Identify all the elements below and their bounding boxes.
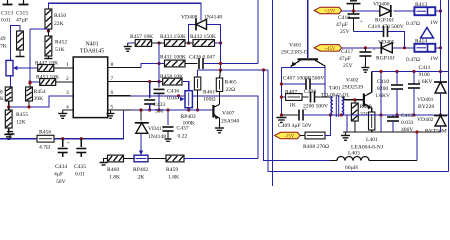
svg-text:1K: 1K: [289, 103, 296, 109]
svg-text:39K: 39K: [34, 96, 44, 102]
svg-text:RP402: RP402: [133, 167, 148, 173]
wire R432 right to vertical: [215, 42, 221, 44]
pin 7: [111, 76, 114, 82]
wire bundle line B to L403: [264, 70, 331, 161]
resistor R455 12K: [5, 110, 28, 128]
node R454 top: [28, 81, 31, 84]
wire R461-R465 top rail: [198, 70, 268, 77]
wire R456 line: [0, 110, 124, 139]
wire R447 to pin 1: [54, 67, 73, 69]
ground above C418: [347, 1, 361, 11]
capacitor C313 (top plate, off-page): [1, 0, 13, 24]
svg-text:2: 2: [66, 76, 69, 82]
svg-text:+: +: [304, 107, 307, 113]
wire bundle line D: [272, 0, 274, 186]
svg-text:V402: V402: [346, 78, 359, 84]
pin 3: [66, 90, 69, 96]
svg-text:L401: L401: [366, 137, 378, 143]
svg-text:K: K: [0, 96, 4, 102]
resistor R453 10K: [36, 75, 59, 86]
wire R409 bottom: [354, 121, 356, 132]
node V402 base R409 tap: [353, 98, 356, 101]
resistor R458 10K: [160, 74, 183, 85]
ground at C409 line left: [276, 118, 286, 123]
ground left of R460: [100, 159, 108, 166]
svg-text:1: 1: [66, 62, 69, 68]
wire x404 vertical stub: [404, 32, 406, 48]
wire R410 bottom: [371, 130, 373, 132]
node R465 top rail: [219, 68, 222, 71]
node R454 bottom: [27, 105, 30, 108]
svg-text:N401: N401: [85, 42, 98, 48]
pin 8: [111, 62, 114, 68]
svg-text:VD406: VD406: [373, 2, 390, 8]
resistor R465 22 ohm: [216, 78, 237, 93]
svg-text:0.47Ω: 0.47Ω: [406, 21, 420, 27]
node C433 top: [148, 80, 151, 83]
svg-text:C412: C412: [401, 113, 413, 119]
svg-text:2SD2539: 2SD2539: [342, 85, 363, 91]
svg-text:4µF: 4µF: [54, 172, 63, 178]
wire R407 row: [281, 96, 308, 98]
wire pin 6 long rail: [108, 96, 258, 159]
wire R454 top stem: [29, 83, 31, 87]
svg-text:4: 4: [66, 105, 69, 111]
capacitor C418 47uF 25V: [336, 11, 363, 35]
svg-text:330: 330: [155, 109, 164, 115]
node R461 bottom: [196, 108, 199, 111]
svg-text:C426 0.047: C426 0.047: [189, 55, 215, 61]
wire x381 drop to L401 line: [380, 72, 382, 133]
wire +45V rail: [342, 47, 415, 49]
svg-text:BYT56M: BYT56M: [425, 129, 447, 135]
wire pin 8 to R431 rail: [108, 64, 165, 68]
resistor R450 22K: [45, 9, 66, 29]
wire R450-R452 stem: [47, 29, 49, 36]
node R407 left: [280, 95, 283, 98]
node C417 tap: [364, 46, 367, 49]
wire C433 stem: [149, 82, 151, 98]
wire C408 to T401: [315, 96, 333, 98]
svg-text:0.01: 0.01: [75, 172, 85, 178]
svg-text:+: +: [67, 141, 70, 147]
node L403 riser top: [415, 130, 418, 133]
wire R465 stem top: [220, 70, 221, 78]
capacitor C409 4uF 50V: [278, 107, 312, 129]
wire R431 to C426: [185, 63, 198, 65]
svg-text:R461: R461: [203, 90, 215, 96]
node R431 left: [157, 62, 160, 65]
node C411 bottom: [412, 113, 415, 116]
svg-text:C433: C433: [153, 102, 165, 108]
wire T401 right top to V402 base: [342, 97, 363, 100]
svg-text:RGP10J: RGP10J: [376, 56, 395, 62]
svg-text:L403: L403: [348, 151, 360, 157]
svg-text:VD405: VD405: [378, 40, 395, 46]
resistor R452 51K: [45, 36, 67, 56]
node x381 at 115 rail: [379, 113, 382, 116]
wire C426 right to bundle: [203, 63, 258, 65]
net label -15V: [275, 132, 301, 139]
pin 6: [111, 90, 114, 96]
svg-text:RP403: RP403: [181, 114, 196, 120]
wire C433 bottom to bus: [149, 104, 151, 110]
svg-text:VD417: VD417: [148, 126, 165, 132]
svg-text:C315: C315: [16, 11, 28, 17]
transistor V401 2SC2383-O (NPN): [281, 43, 325, 68]
resistor R433 150K: [160, 34, 186, 46]
node VD405 right: [403, 46, 406, 49]
svg-text:C408: C408: [304, 89, 316, 95]
wire RP403 bottom to bus: [188, 108, 190, 110]
svg-text:2K: 2K: [138, 175, 145, 181]
diode VD406 RGP10J: [373, 2, 394, 24]
diode VD405 RGP10J: [376, 40, 395, 62]
wire bundle line C to bottom rail: [268, 70, 449, 172]
node R450/R452 junction: [47, 29, 50, 32]
ground on bus near pin5: [107, 110, 115, 118]
svg-text:1N4148: 1N4148: [204, 15, 222, 21]
node VD401 top: [439, 70, 442, 73]
wire signal bus pin5: [108, 109, 213, 111]
wire VD402 bottom: [440, 126, 442, 132]
wire R433-R432: [185, 42, 193, 44]
capacitor C412 0.033 400V: [387, 113, 414, 133]
wire R459 to bundle: [184, 158, 258, 160]
svg-text:R407: R407: [285, 90, 297, 96]
svg-text:C407 1000P 500V: C407 1000P 500V: [283, 76, 324, 82]
transistor V407 2SA940 (PNP): [213, 104, 239, 124]
capacitor C417 47uF 25V: [339, 47, 376, 69]
svg-text:C436: C436: [167, 89, 179, 95]
node C411 top: [412, 70, 415, 73]
wire C409 row: [281, 114, 298, 116]
node C409 line left: [280, 113, 283, 116]
svg-text:BY228: BY228: [418, 104, 434, 110]
node 115 rail right col: [439, 113, 442, 116]
resistor R461 100 ohm: [194, 77, 215, 103]
node T401 bottom left: [329, 113, 332, 116]
ground below C437: [165, 139, 172, 141]
wire R414 to right column: [435, 46, 442, 49]
svg-text:0.47Ω: 0.47Ω: [406, 57, 420, 63]
wire 115 rail right: [347, 114, 449, 116]
warning triangle (blue): [421, 28, 434, 39]
svg-text:9100: 9100: [419, 72, 430, 78]
svg-text:R408 270Ω: R408 270Ω: [303, 144, 329, 150]
node C426 rail at R465 column: [219, 62, 222, 65]
node R457/R433: [157, 41, 160, 44]
capacitor C315 (top plate, off-page): [16, 0, 29, 24]
wire pin 4 to ground: [63, 109, 73, 111]
ground at pin 4: [58, 110, 67, 118]
svg-text:22Ω: 22Ω: [226, 87, 236, 93]
wire R453 to pin 2: [56, 81, 73, 83]
transistor V402 2SD2539 (NPN): [342, 72, 372, 113]
svg-text:R431 100K: R431 100K: [160, 55, 186, 61]
ground on R456 line: [6, 132, 15, 139]
svg-text:400V: 400V: [401, 127, 413, 133]
wire top rail from R450 to VD408 branch: [48, 3, 201, 20]
wire R457-R433: [152, 42, 165, 44]
wire VD408 bypass loop: [189, 24, 221, 43]
svg-text:-15V: -15V: [284, 134, 294, 139]
svg-text:R450: R450: [54, 13, 66, 19]
svg-text:C437: C437: [177, 126, 189, 132]
svg-text:1.6KV: 1.6KV: [418, 79, 433, 85]
wire VD401 column: [440, 0, 442, 82]
capacitor C426 0.047: [189, 55, 215, 70]
svg-text:R456: R456: [39, 130, 51, 136]
net label +45V: [314, 45, 341, 52]
svg-text:C411: C411: [419, 65, 431, 71]
wire C416 branch: [354, 32, 405, 48]
svg-text:RGP10J: RGP10J: [375, 18, 394, 24]
svg-text:VD408: VD408: [181, 15, 198, 21]
resistor R431 100K: [160, 55, 186, 67]
wire R408 to T401: [325, 115, 331, 136]
op-amp/IC N401 TDA8145: [73, 42, 108, 118]
ground on L401 line: [341, 132, 350, 140]
wire left vertical bus x30: [30, 29, 48, 83]
svg-text:C313: C313: [1, 11, 13, 17]
wire VD401 to 115 rail: [440, 93, 442, 116]
svg-text:R465: R465: [225, 80, 237, 86]
wire +25V rail: [342, 10, 415, 12]
wire RP403 wiper: [179, 96, 185, 101]
node R432 right: [219, 41, 222, 44]
svg-text:47µF: 47µF: [16, 18, 28, 24]
wire -15V to R408: [300, 135, 305, 137]
svg-text:R413: R413: [415, 2, 427, 8]
wire branch to R449 top: [11, 26, 21, 61]
node R448 bottom: [7, 105, 10, 108]
node C436 column on pin7: [157, 80, 160, 83]
svg-text:+: +: [360, 19, 363, 25]
diode VD408 1N4148: [181, 15, 222, 31]
svg-text:R432 150K: R432 150K: [190, 34, 216, 40]
capacitor C410 8200 1.6KV: [375, 72, 403, 116]
svg-text:1W: 1W: [430, 56, 439, 62]
svg-text:R455: R455: [16, 112, 28, 118]
svg-text:C434: C434: [55, 164, 67, 170]
svg-text:1.8K: 1.8K: [168, 175, 179, 181]
wire R449 bottom stub with bar: [16, 50, 25, 57]
wire R448/R454 bottoms to pin 3: [9, 96, 74, 107]
resistor R456 4.7 ohm: [37, 130, 54, 151]
node C435 tap: [80, 137, 83, 140]
svg-text:1N4148: 1N4148: [148, 134, 166, 140]
potentiometer RP401 (blue): [6, 60, 18, 75]
node C434 tap: [61, 137, 64, 140]
svg-text:C417: C417: [341, 49, 353, 55]
resistor R459 1.8K: [166, 155, 184, 180]
node C410 top: [395, 70, 398, 73]
capacitor C416 470 500V: [368, 24, 404, 37]
ground below R455: [4, 131, 13, 139]
wire C437 bottom: [167, 131, 169, 139]
diode VD401 BY228: [417, 82, 447, 110]
capacitor C437 0.22: [163, 126, 189, 140]
potentiometer RP402 2K (blue): [133, 155, 148, 180]
node R453 left junction: [28, 80, 31, 83]
resistor R408 270 ohm: [303, 132, 329, 150]
svg-text:8200: 8200: [377, 86, 388, 92]
resistor R414 0.47ohm 1W (blue box): [406, 39, 439, 64]
svg-text:3: 3: [66, 90, 69, 96]
svg-text:T401: T401: [329, 86, 341, 92]
wire R457 junction down to C436: [158, 43, 160, 87]
resistor R447 10K: [35, 61, 58, 72]
node RP403 bottom: [187, 108, 190, 111]
wire to L403: [330, 160, 337, 162]
wire C407 loop rectangle: [281, 67, 325, 115]
svg-text:TDA8145: TDA8145: [80, 49, 104, 55]
wire vertical R432 node down to R465 rail: [220, 43, 222, 70]
svg-text:R452: R452: [55, 40, 67, 46]
pin 4: [66, 105, 69, 111]
svg-text:+: +: [373, 47, 376, 53]
transformer T401 TD-0042: [321, 86, 350, 118]
resistor R410 (emitter box): [369, 112, 375, 130]
net label +25V: [314, 7, 341, 14]
svg-text:+25V: +25V: [324, 9, 336, 14]
svg-text:47µF: 47µF: [336, 22, 348, 28]
svg-text:22K: 22K: [54, 21, 64, 27]
svg-text:R459: R459: [166, 167, 178, 173]
resistor R413 0.47ohm 1W (blue box): [406, 2, 439, 27]
svg-text:2200 500V: 2200 500V: [303, 104, 328, 110]
wire RP402 to R459: [148, 158, 166, 160]
ground left of R457: [124, 43, 136, 51]
svg-text:0.22: 0.22: [178, 134, 188, 140]
capacitor C434 4uF 50V (electrolytic): [54, 139, 70, 185]
resistor R449 7K: [0, 31, 23, 50]
inductor L401 label: [351, 137, 384, 151]
svg-text:R457 18K: R457 18K: [130, 34, 153, 40]
svg-text:R433 150K: R433 150K: [160, 34, 186, 40]
resistor R448 (left edge): [0, 87, 12, 102]
wire R461 bottom to bus: [197, 90, 199, 110]
node C407 mid junction: [280, 82, 283, 85]
wire R413 to right column: [435, 9, 442, 12]
node C410 bottom: [395, 113, 398, 116]
svg-text:1.8K: 1.8K: [109, 175, 120, 181]
ground at V407 emitter: [215, 125, 224, 133]
svg-text:2SA940: 2SA940: [221, 119, 240, 125]
svg-text:R454: R454: [34, 89, 46, 95]
wire R458 to RP403 top: [182, 82, 189, 91]
svg-text:C409 4µF 50V: C409 4µF 50V: [278, 123, 312, 129]
svg-text:0.033: 0.033: [401, 120, 414, 126]
svg-text:C416 470 500V: C416 470 500V: [368, 24, 404, 30]
diode VD402 BYT56M: [417, 116, 447, 135]
node C436 bottom: [157, 108, 160, 111]
svg-text:25V: 25V: [343, 63, 353, 69]
wire bus to VD417: [140, 110, 142, 121]
wire R465 bottom to V407 collector: [219, 92, 221, 105]
svg-text:V407: V407: [222, 111, 235, 117]
inductor L403 60uH: [337, 151, 369, 172]
svg-text:49: 49: [0, 36, 6, 42]
resistor R407 1K: [285, 90, 302, 109]
svg-text:60µH: 60µH: [345, 165, 358, 171]
capacitor C408 2200 500V: [303, 89, 328, 110]
resistor R409 22 ohm: [351, 100, 371, 121]
wire C437 stem: [167, 110, 169, 125]
svg-text:C418: C418: [338, 15, 350, 21]
pin 5: [111, 105, 114, 111]
wire R452 bottom stub with bar: [44, 56, 52, 59]
capacitor C407 1000P 500V: [283, 76, 324, 90]
svg-text:1W: 1W: [430, 20, 439, 26]
capacitor C411 9100 1.6KV: [408, 65, 433, 115]
wire 71 rail: [372, 71, 449, 73]
pin 1: [66, 62, 69, 68]
resistor R454 39K: [26, 87, 46, 102]
svg-text:VD401: VD401: [417, 97, 434, 103]
wire C409 to T401 bottom: [303, 115, 347, 132]
svg-text:V401: V401: [289, 43, 302, 49]
svg-text:R460: R460: [107, 167, 119, 173]
wire pot bottom to R448: [10, 76, 12, 87]
svg-text:47µF: 47µF: [339, 56, 351, 62]
wire pin 7 to R458: [108, 81, 163, 83]
node C418 tap: [352, 9, 355, 12]
wire C436 bottom to bus: [158, 93, 160, 110]
pin 2: [66, 76, 69, 82]
svg-text:R447 10K: R447 10K: [35, 61, 58, 67]
svg-text:VD402: VD402: [417, 117, 434, 123]
node T401 bottom right: [340, 113, 343, 116]
node R433/R432: [187, 41, 190, 44]
svg-text:50V: 50V: [56, 179, 66, 185]
node bus C437: [166, 108, 169, 111]
svg-text:4.7Ω: 4.7Ω: [39, 145, 50, 151]
svg-text:R409: R409: [360, 104, 372, 110]
svg-text:8: 8: [0, 90, 3, 96]
svg-text:1.6KV: 1.6KV: [375, 93, 390, 99]
svg-text:51K: 51K: [55, 47, 65, 53]
svg-text:C410: C410: [377, 79, 389, 85]
node C433 bottom: [148, 108, 151, 111]
capacitor C433 330: [144, 100, 165, 115]
wire R453 row from vertical: [30, 81, 40, 83]
svg-text:7K: 7K: [0, 44, 7, 50]
node x381 rail tap: [379, 70, 382, 73]
node pin6 RP403 branch: [177, 94, 180, 97]
capacitor C435 0.01: [74, 139, 86, 178]
svg-text:0.01: 0.01: [1, 18, 11, 24]
node rail line B tap: [262, 68, 265, 71]
node bus VD417: [139, 108, 142, 111]
svg-text:R414: R414: [415, 39, 427, 45]
wire V401 base drop: [307, 0, 309, 58]
svg-text:100Ω: 100Ω: [203, 97, 216, 103]
svg-text:TD-0042-OL: TD-0042-OL: [321, 93, 350, 99]
wire bundle line A top (to R431 rail): [257, 0, 259, 64]
wire pot wiper to R447/pin1: [17, 67, 38, 69]
svg-text:R453 10K: R453 10K: [36, 75, 59, 81]
svg-text:6: 6: [111, 90, 114, 96]
svg-text:+45V: +45V: [324, 47, 336, 52]
resistor R457 18K: [130, 34, 153, 46]
wire VD417 to RP402 wiper: [139, 133, 143, 155]
svg-text:C435: C435: [74, 164, 86, 170]
wire right edge column: [448, 0, 450, 172]
ground below C417: [361, 64, 369, 72]
svg-text:R458 10K: R458 10K: [160, 74, 183, 80]
